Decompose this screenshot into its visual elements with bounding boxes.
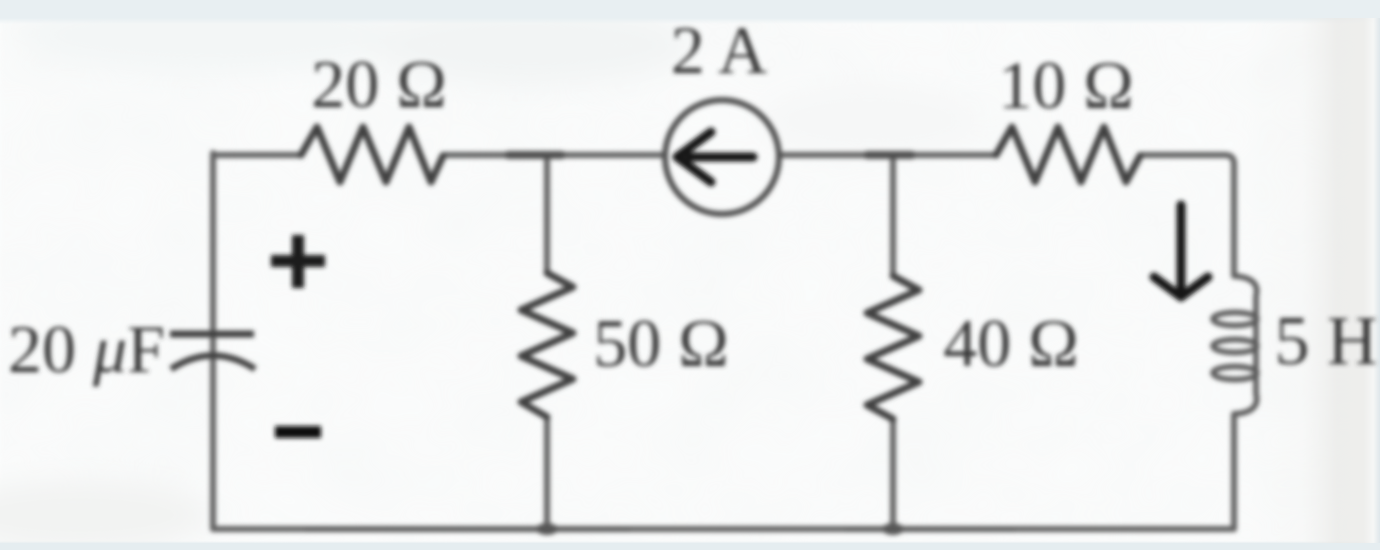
svg-text:20 μF: 20 μF — [8, 311, 165, 387]
svg-text:2 A: 2 A — [671, 12, 767, 88]
svg-text:10 Ω: 10 Ω — [998, 47, 1134, 123]
svg-text:50 Ω: 50 Ω — [593, 305, 729, 381]
svg-text:5 H: 5 H — [1274, 303, 1377, 380]
svg-text:20 Ω: 20 Ω — [311, 46, 447, 122]
svg-text:40 Ω: 40 Ω — [943, 305, 1079, 381]
